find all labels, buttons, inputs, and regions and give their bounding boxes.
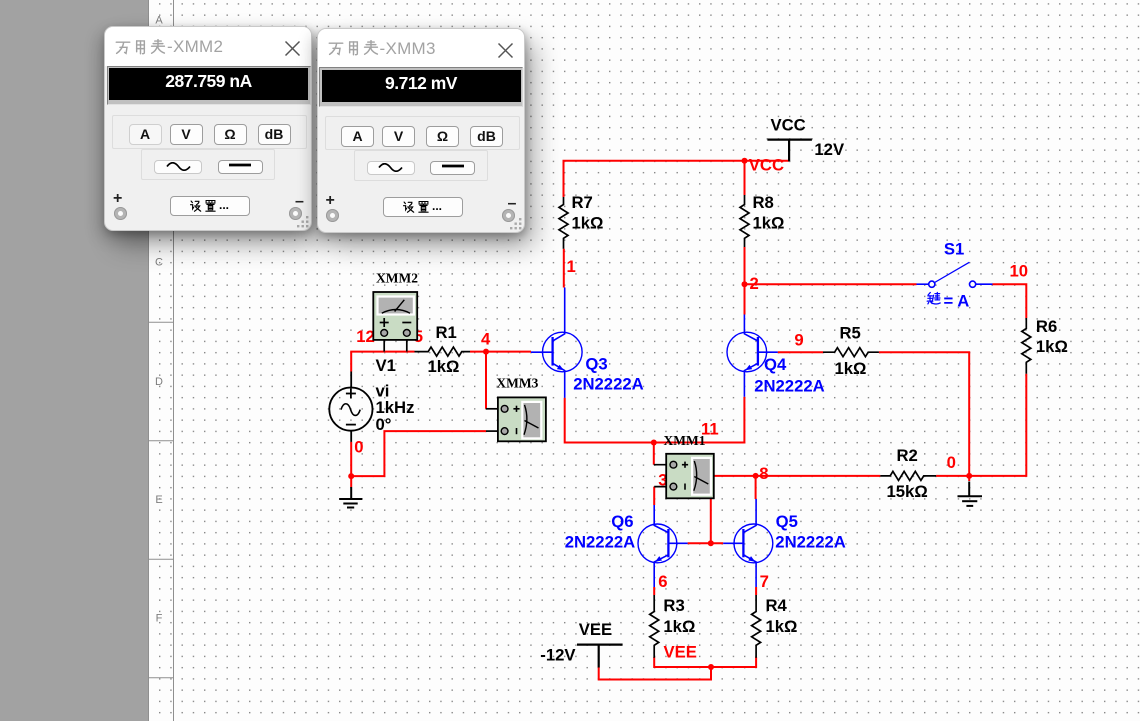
wire net 8: Q6 base to Q5 base link xyxy=(688,542,724,544)
junction node 8 xyxy=(753,473,759,479)
svg-text:4: 4 xyxy=(481,329,491,348)
svg-text:0: 0 xyxy=(947,453,956,472)
wire net 2: node 2 to Q4 collector xyxy=(744,284,746,314)
wire net 11: Q3 emitter down and right to node 11 xyxy=(565,398,654,443)
wire net 5: XMM2 minus to R1 left lead xyxy=(407,351,415,353)
wire net 0: R2 right lead to ground junction xyxy=(936,475,969,477)
wire net 0: R5 right end down to ground junction xyxy=(879,352,969,481)
multimeter window XMM2 xyxy=(104,26,312,231)
svg-text:XMM2: XMM2 xyxy=(376,270,418,285)
resistor R2 xyxy=(880,471,936,480)
junction node 0 right xyxy=(966,473,972,479)
wire net 8: XMM1 right edge to R2 left lead xyxy=(714,475,881,477)
wire net 8: bases junction up behind XMM1 xyxy=(710,498,712,543)
junction node VCC xyxy=(742,158,748,164)
svg-text:Q3: Q3 xyxy=(585,355,607,374)
wire net VEE: R3 bottom to rail xyxy=(654,657,756,667)
wire net 9: Q4 base to R5 left xyxy=(778,351,823,353)
ground below V1 xyxy=(339,487,362,508)
junction node 0 left xyxy=(348,473,354,479)
transistor Q4 xyxy=(727,315,778,397)
svg-text:R8: R8 xyxy=(753,193,774,212)
svg-text:1kΩ: 1kΩ xyxy=(572,214,604,233)
junction node 8 bases xyxy=(708,540,714,546)
transistor Q6 xyxy=(638,505,688,587)
svg-text:15kΩ: 15kΩ xyxy=(887,482,928,501)
svg-text:E: E xyxy=(155,494,162,506)
svg-text:12V: 12V xyxy=(814,140,845,159)
wire net 4: node 4 down to XMM3 plus xyxy=(485,352,487,409)
svg-text:VCC: VCC xyxy=(749,156,784,175)
junction node 2 xyxy=(742,281,748,287)
svg-text:0°: 0° xyxy=(376,415,392,434)
multimeter window XMM3 xyxy=(317,28,525,233)
wire net 11: node 11 down to XMM1 plus terminal xyxy=(653,443,655,465)
svg-text:1kΩ: 1kΩ xyxy=(753,214,785,233)
wire net 2: R8 bottom to node 2 xyxy=(744,247,746,284)
wire net 0: R6 bottom to ground junction xyxy=(969,374,1026,476)
svg-text:R5: R5 xyxy=(840,323,861,342)
resistor R8 xyxy=(740,195,749,247)
power VCC symbol xyxy=(767,140,812,162)
svg-text:XMM3: XMM3 xyxy=(496,375,538,390)
svg-text:7: 7 xyxy=(760,572,769,591)
svg-text:VCC: VCC xyxy=(771,116,806,135)
resistor R5 xyxy=(823,348,879,357)
svg-text:1kΩ: 1kΩ xyxy=(663,617,695,636)
svg-text:1: 1 xyxy=(567,257,576,276)
svg-text:12: 12 xyxy=(356,327,375,346)
svg-text:XMM1: XMM1 xyxy=(664,433,706,448)
resistor R4 xyxy=(752,595,761,658)
hidden defs for CJK glyph strokes xyxy=(0,0,5,5)
svg-text:R3: R3 xyxy=(663,596,684,615)
transistor Q3 xyxy=(531,288,582,398)
svg-text:VEE: VEE xyxy=(664,642,697,661)
transistor Q5 xyxy=(723,499,773,587)
svg-text:F: F xyxy=(156,613,163,625)
wire net VCC: R7 top to VCC rail xyxy=(564,161,790,197)
svg-text:0: 0 xyxy=(354,437,363,456)
svg-text:R2: R2 xyxy=(897,446,918,465)
svg-text:...: ... xyxy=(432,199,442,213)
instrument XMM3 icon xyxy=(486,397,546,441)
svg-text:2N2222A: 2N2222A xyxy=(565,532,636,551)
svg-text:1kΩ: 1kΩ xyxy=(835,359,867,378)
svg-text:= A: = A xyxy=(944,291,970,310)
svg-text:8: 8 xyxy=(759,464,768,483)
wire net 0: ground junction right and up xyxy=(351,431,486,476)
junction node 11 xyxy=(651,440,657,446)
svg-text:...: ... xyxy=(219,198,229,212)
svg-text:R7: R7 xyxy=(572,193,593,212)
junction node VEE rail xyxy=(708,664,714,670)
svg-text:1kΩ: 1kΩ xyxy=(766,617,798,636)
svg-text:10: 10 xyxy=(1010,261,1029,280)
wire net 1: R7 bottom to Q3 collector xyxy=(563,249,565,288)
wire net 8: node 8 down to Q5 collector xyxy=(755,476,757,499)
svg-text:R6: R6 xyxy=(1036,317,1057,336)
svg-text:Q4: Q4 xyxy=(764,355,787,374)
svg-text:2: 2 xyxy=(750,274,759,293)
svg-text:2N2222A: 2N2222A xyxy=(754,377,825,396)
svg-text:D: D xyxy=(155,376,163,388)
ground right of R2 xyxy=(958,482,983,506)
sheet border strip xyxy=(148,0,174,721)
svg-text:1kΩ: 1kΩ xyxy=(1036,337,1068,356)
power VEE symbol xyxy=(577,645,623,668)
svg-text:A: A xyxy=(155,15,163,27)
wire net VCC: rail to R8 top xyxy=(744,161,746,195)
switch S1 xyxy=(917,262,993,287)
resistor R6 xyxy=(1022,318,1031,374)
instrument XMM2 icon xyxy=(373,292,417,352)
wire net 12: V1 top to XMM2 plus xyxy=(351,352,384,372)
svg-text:R4: R4 xyxy=(766,596,788,615)
resistor R7 xyxy=(559,197,568,249)
svg-text:Q6: Q6 xyxy=(611,512,633,531)
source V1 xyxy=(329,372,372,442)
wire net 4: R1 right lead to Q3 base xyxy=(470,351,531,353)
svg-text:9: 9 xyxy=(794,330,803,349)
wire net VEE: rail drop to VEE symbol xyxy=(599,667,711,680)
svg-text:VEE: VEE xyxy=(579,620,612,639)
svg-text:6: 6 xyxy=(658,572,667,591)
wire net 3: XMM1 minus down to Q6 collector xyxy=(653,487,655,505)
label key = A for S1 xyxy=(927,291,969,310)
svg-text:2N2222A: 2N2222A xyxy=(775,532,846,551)
svg-text:Q5: Q5 xyxy=(776,512,798,531)
svg-text:R1: R1 xyxy=(436,323,457,342)
resistor R3 xyxy=(650,595,659,658)
wire net 12: under XMM2 xyxy=(384,351,407,353)
resistor R1 xyxy=(415,347,471,356)
svg-text:2N2222A: 2N2222A xyxy=(573,374,644,393)
wire net 7: Q5 emitter to R4 top xyxy=(755,587,757,595)
wire net 2: node 2 to switch S1 left pin xyxy=(745,283,917,285)
svg-text:-12V: -12V xyxy=(540,645,576,664)
svg-text:V1: V1 xyxy=(376,356,396,375)
junction node 4 xyxy=(483,349,489,355)
svg-text:1kΩ: 1kΩ xyxy=(428,357,460,376)
wire net 0: V1 bottom to ground junction xyxy=(350,442,352,487)
svg-text:C: C xyxy=(155,257,163,269)
instrument XMM1 icon xyxy=(654,454,714,499)
wire net 11: Q4 emitter down and left to node 11 xyxy=(654,397,745,443)
wire net 6: Q6 emitter to R3 top xyxy=(653,587,655,595)
wire net 10: S1 right pin to corner, down to R6 xyxy=(993,284,1027,318)
svg-text:S1: S1 xyxy=(944,239,964,258)
